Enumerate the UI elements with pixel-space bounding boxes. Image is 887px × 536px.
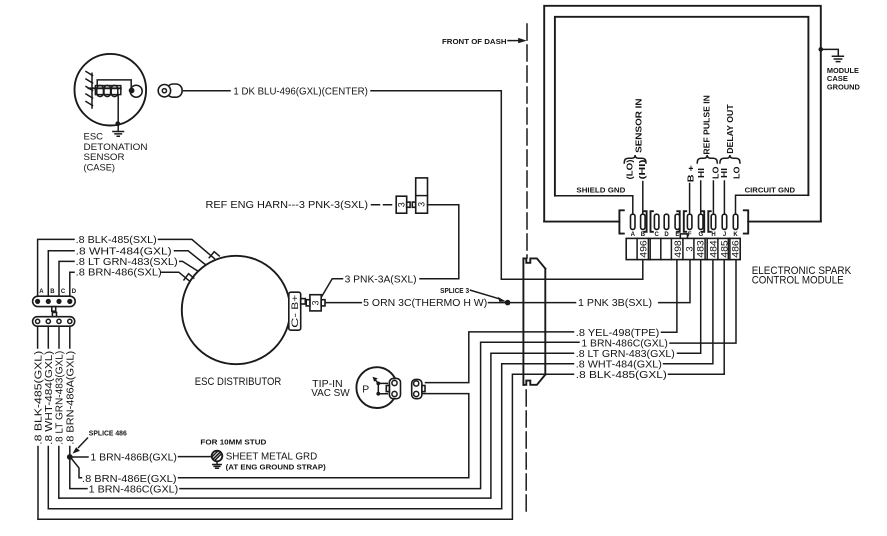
vac switch contacts — [376, 382, 380, 386]
svg-text:3: 3 — [397, 202, 407, 207]
wire BRN down to splice 486 — [69, 447, 71, 458]
pin C — [654, 214, 659, 229]
svg-text:F: F — [688, 232, 692, 238]
wire BLK-485: run to label — [38, 374, 574, 519]
sensor label — [84, 131, 148, 172]
wire distributor to PNK-3A label — [321, 279, 459, 298]
svg-text:CONTROL MODULE: CONTROL MODULE — [752, 275, 844, 287]
svg-text:SPLICE 486: SPLICE 486 — [89, 429, 127, 438]
svg-text:B: B — [50, 289, 55, 295]
sheet metal grd bolt — [212, 451, 223, 469]
svg-text:K: K — [733, 232, 738, 238]
front of dash line (dashed, lower) — [525, 390, 527, 516]
pin A — [631, 214, 636, 229]
wire C: connector to LT GRN label to distributor — [59, 261, 197, 296]
svg-text:3: 3 — [683, 246, 694, 251]
svg-text:ESC DISTRIBUTOR: ESC DISTRIBUTOR — [195, 376, 282, 388]
wire A: connector to BLK label to distributor — [38, 239, 215, 296]
svg-text:C: C — [61, 289, 66, 295]
ESC module outer case — [544, 6, 821, 222]
svg-text:FRONT OF DASH: FRONT OF DASH — [442, 37, 507, 46]
vac switch connector (switch side) — [389, 378, 400, 398]
svg-text:.8 BLK-485(GXL): .8 BLK-485(GXL) — [576, 370, 667, 381]
svg-text:.8 LT GRN-483(GXL): .8 LT GRN-483(GXL) — [576, 349, 675, 360]
front of dash arrow — [508, 40, 519, 42]
svg-text:3 PNK-3A(SXL): 3 PNK-3A(SXL) — [345, 274, 417, 285]
svg-text:E: E — [675, 232, 679, 238]
svg-text:REF PULSE IN: REF PULSE IN — [702, 95, 712, 155]
svg-text:G: G — [698, 232, 703, 238]
svg-text:.8 BRN-486E(GXL): .8 BRN-486E(GXL) — [82, 474, 177, 485]
svg-text:.8 WHT-484(GXL): .8 WHT-484(GXL) — [44, 351, 55, 445]
wire pin B to (HI) label — [642, 182, 644, 215]
pin B — [641, 214, 646, 229]
vac switch connector (harness side) — [412, 379, 422, 398]
module case ground dot — [819, 47, 824, 52]
connector key tab between E and F — [680, 234, 687, 239]
svg-text:.8 BRN-486(SXL): .8 BRN-486(SXL) — [76, 268, 162, 279]
brace DELAY OUT over pins J,K — [720, 155, 740, 163]
sensor bullet connector — [158, 84, 182, 97]
wire pin F to B+ label — [689, 184, 691, 215]
connector shell bracket right — [744, 210, 748, 233]
wire ORN 3C: distributor 3 connector to splice 3 — [325, 302, 508, 304]
bulkhead pass-through connector at dash — [523, 258, 545, 384]
svg-text:5 ORN 3C(THERMO H W): 5 ORN 3C(THERMO H W) — [363, 298, 487, 309]
svg-text:B +: B + — [685, 165, 695, 182]
brace SENSOR IN over pins A,B — [624, 155, 646, 163]
svg-text:1 BRN-486C(GXL): 1 BRN-486C(GXL) — [89, 485, 179, 496]
harness connector 3 (right, tall) — [416, 178, 428, 213]
splice 3 dot — [505, 300, 511, 306]
ESC detonation sensor (case) — [75, 54, 147, 132]
svg-text:483: 483 — [695, 240, 706, 258]
svg-text:VAC SW: VAC SW — [311, 388, 350, 399]
wire splice 486 down to BRN-486C branch — [70, 459, 87, 489]
pin D — [664, 214, 669, 229]
svg-text:REF ENG HARN---3 PNK-3(SXL): REF ENG HARN---3 PNK-3(SXL) — [206, 200, 369, 211]
svg-text:(CASE): (CASE) — [84, 163, 116, 173]
wire YEL-498: vac switch to label — [426, 332, 574, 383]
svg-text:B+: B+ — [290, 295, 300, 310]
4-pin connector letters A B C D — [39, 289, 76, 295]
front of dash line (dashed, upper) — [526, 24, 528, 258]
pin F — [687, 214, 692, 229]
svg-text:FOR 10MM STUD: FOR 10MM STUD — [200, 438, 267, 447]
brace REF PULSE IN over pins G,H — [697, 155, 717, 163]
wire WHT-484: run to label — [48, 364, 573, 509]
svg-text:C: C — [655, 232, 660, 238]
tip-in vac switch — [356, 367, 397, 408]
pin K — [733, 214, 738, 229]
svg-text:.8 YEL-498(TPE): .8 YEL-498(TPE) — [576, 328, 660, 339]
distributor terminal tick 4 — [184, 274, 194, 280]
wire pin H to LO label — [712, 181, 714, 214]
wire BRN-486C: run to label — [180, 342, 579, 488]
wire pin G to HI label — [700, 181, 702, 214]
svg-text:SENSOR: SENSOR — [84, 152, 125, 162]
svg-text:ESC: ESC — [84, 131, 104, 141]
wire number box row — [626, 238, 740, 259]
svg-text:D: D — [72, 289, 77, 295]
wire 3 box to PNK 3B label — [659, 260, 690, 303]
svg-text:P: P — [362, 384, 369, 395]
wire LT GRN down to run — [58, 447, 60, 499]
4-pin connector lower half — [33, 317, 75, 327]
svg-text:SHEET METAL GRD: SHEET METAL GRD — [226, 451, 318, 462]
wire D: connector to BRN label to distributor — [70, 272, 189, 296]
svg-text:B: B — [641, 232, 646, 238]
svg-text:LO: LO — [731, 166, 741, 179]
wire harness connector to PNK-3A line — [428, 205, 459, 279]
svg-text:3: 3 — [311, 300, 321, 305]
distributor terminal tick 1 — [209, 252, 219, 258]
wire 484 box to WHT label — [664, 260, 713, 364]
svg-text:HI: HI — [719, 168, 729, 178]
svg-text:486: 486 — [730, 240, 741, 258]
svg-text:DETONATION: DETONATION — [84, 142, 148, 152]
vac switch arrow — [375, 380, 378, 384]
svg-text:A: A — [39, 289, 44, 295]
pin G — [699, 214, 704, 229]
distributor C-/B+ terminal box — [289, 292, 301, 330]
circuit gnd wire: inner box to pin K — [736, 195, 809, 214]
svg-text:(AT ENG GROUND STRAP): (AT ENG GROUND STRAP) — [226, 463, 326, 472]
wire B: connector to WHT label to distributor — [48, 251, 205, 296]
svg-text:D: D — [664, 232, 669, 238]
sensor case junction dot — [115, 121, 120, 126]
svg-text:C-: C- — [290, 313, 300, 328]
module case ground label — [827, 66, 861, 91]
svg-text:.8 WHT-484(GXL): .8 WHT-484(GXL) — [76, 246, 172, 257]
wire 1 BRN-486B to sheet metal grd — [73, 456, 211, 458]
wire WHT down to run — [47, 447, 49, 509]
pin E — [675, 214, 680, 229]
wire splice3 to PNK 3B label — [508, 302, 576, 304]
svg-text:A: A — [631, 232, 636, 238]
pin letters A-K — [631, 232, 739, 238]
ESC distributor circle — [182, 256, 290, 364]
harness connector tabs — [407, 202, 410, 207]
svg-text:.8 BRN-486A(GXL): .8 BRN-486A(GXL) — [66, 351, 77, 445]
4-pin connector upper half — [33, 296, 76, 306]
connector shell brackets between B|C — [644, 211, 653, 232]
wire dashes to harness connector — [372, 204, 395, 206]
svg-text:GROUND: GROUND — [827, 82, 861, 91]
wire 486 box to BRN-486C label — [670, 260, 736, 343]
svg-text:1 BRN-486B(GXL): 1 BRN-486B(GXL) — [90, 452, 177, 463]
wire 1 DK BLU-496(GXL)(CENTER): sensor to module pin B (496) — [184, 90, 230, 92]
connector shell bracket left — [619, 210, 623, 233]
svg-text:(LO): (LO) — [624, 159, 634, 179]
wire pin J to HI label — [723, 181, 725, 214]
svg-text:HI: HI — [696, 168, 706, 178]
svg-text:J: J — [723, 232, 726, 238]
wire BLK down to run — [37, 447, 39, 520]
shield gnd wire: inner box to pin A — [555, 196, 633, 215]
splice 486 dot — [67, 454, 73, 460]
splice 486 leader arrow — [79, 438, 88, 448]
svg-text:.8 LT GRN-483(GXL): .8 LT GRN-483(GXL) — [55, 351, 66, 445]
connector shell brackets between E|F — [677, 211, 686, 232]
svg-text:.8 WHT-484(GXL): .8 WHT-484(GXL) — [576, 359, 662, 370]
sensor case ground — [113, 132, 124, 137]
harness connector 3 (left) — [396, 196, 407, 213]
svg-text:DELAY OUT: DELAY OUT — [725, 104, 735, 154]
svg-text:484: 484 — [708, 240, 719, 258]
connector shell brackets between G|H — [702, 211, 711, 232]
module case ground — [821, 49, 844, 61]
distributor connector 3 — [310, 295, 321, 311]
distributor terminal nub — [301, 299, 306, 304]
svg-text:.8 LT GRN-483(SXL): .8 LT GRN-483(SXL) — [76, 257, 178, 268]
wire 498 box to YEL label — [662, 260, 677, 332]
svg-text:.8 BLK-485(GXL): .8 BLK-485(GXL) — [34, 351, 45, 445]
svg-text:1 PNK 3B(SXL): 1 PNK 3B(SXL) — [578, 298, 652, 309]
wire BRN-486E: vac switch to splice 486 run — [179, 394, 469, 478]
ESC module inner box — [555, 17, 809, 196]
pin J — [722, 214, 727, 229]
svg-text:498: 498 — [672, 240, 683, 258]
svg-text:H: H — [711, 232, 715, 238]
wire 483 box to LT GRN label — [678, 260, 701, 353]
wire stubs below 4-pin connector — [38, 326, 70, 348]
wire LT GRN-483: run to label — [59, 353, 574, 498]
svg-text:SENSOR IN: SENSOR IN — [633, 98, 643, 153]
svg-text:496: 496 — [638, 240, 649, 258]
svg-text:SPLICE 3: SPLICE 3 — [440, 286, 469, 295]
4-pin connector lock tabs — [52, 307, 56, 312]
splice 3 leader arrow — [471, 290, 500, 299]
svg-text:1 DK BLU-496(GXL)(CENTER): 1 DK BLU-496(GXL)(CENTER) — [233, 87, 368, 98]
wire 485 box to BLK label — [669, 260, 725, 374]
svg-text:CIRCUIT GND: CIRCUIT GND — [745, 185, 796, 194]
svg-text:485: 485 — [718, 240, 729, 258]
wire splice 486 to BRN-486E branch — [72, 459, 82, 478]
svg-text:3: 3 — [417, 202, 427, 207]
pin H — [711, 214, 716, 229]
svg-text:SHIELD GND: SHIELD GND — [576, 185, 626, 194]
svg-text:.8 BLK-485(SXL): .8 BLK-485(SXL) — [76, 235, 157, 246]
